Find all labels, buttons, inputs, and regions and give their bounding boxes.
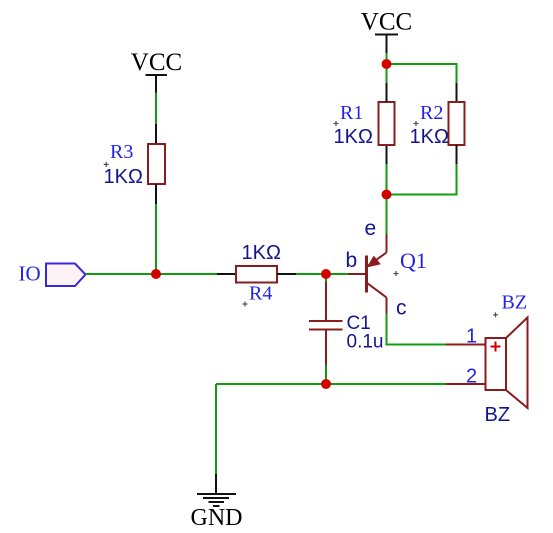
wire VCC to R3 [155, 93, 157, 126]
svg-text:R3: R3 [110, 141, 133, 163]
wire VCC pin to node D [386, 53, 388, 64]
wire node A to R4 [156, 273, 217, 275]
resistor R1 [379, 83, 395, 164]
resistor R3 [148, 124, 165, 204]
svg-text:IO: IO [19, 262, 41, 286]
resistor R2 [449, 83, 465, 164]
wire node C to R1 [386, 164, 388, 194]
capacitor C1 [309, 282, 343, 366]
svg-text:1: 1 [466, 326, 477, 348]
svg-text:R4: R4 [249, 283, 272, 305]
junction node C [382, 190, 392, 200]
svg-text:R1: R1 [340, 102, 363, 124]
wire R1 to node D [386, 64, 388, 83]
svg-text:2: 2 [466, 366, 477, 388]
buzzer BZ [446, 318, 528, 409]
wire ground rail [216, 383, 446, 385]
svg-text:VCC: VCC [131, 49, 182, 76]
wire node B to capacitor [325, 274, 327, 282]
svg-text:1KΩ: 1KΩ [242, 242, 281, 264]
wire R4 to node B [296, 273, 326, 275]
svg-text:c: c [396, 297, 407, 320]
junction node E [321, 379, 331, 389]
power symbol VCC (right) [361, 9, 412, 54]
svg-text:GND: GND [191, 505, 243, 531]
wire R3 to node [155, 204, 157, 274]
R4 origin marker [243, 302, 248, 307]
transistor Q1 [348, 234, 387, 314]
wire node D to R2 top [387, 64, 457, 83]
wire Q1 collector to buzzer pin 1 [387, 314, 447, 345]
wire R2 bottom to node C [387, 164, 457, 195]
Q1 origin marker [394, 271, 399, 276]
svg-text:R2: R2 [420, 102, 443, 124]
svg-text:e: e [365, 217, 377, 240]
svg-text:b: b [346, 249, 358, 272]
junction node A [151, 269, 161, 279]
wire rail to ground [215, 384, 217, 474]
resistor R4 [217, 266, 296, 283]
BZ origin marker [493, 312, 498, 317]
port IO [46, 264, 86, 287]
BZ plus mark [491, 342, 501, 352]
svg-text:Q1: Q1 [400, 248, 427, 273]
svg-text:BZ: BZ [502, 292, 528, 314]
wire capacitor to node E [325, 365, 327, 384]
svg-text:1KΩ: 1KΩ [104, 166, 143, 188]
wire node B to Q1 base [326, 273, 348, 275]
power symbol VCC (left) [131, 49, 182, 93]
svg-text:1KΩ: 1KΩ [334, 126, 373, 148]
wire IO to node A [86, 273, 157, 275]
R1 origin marker [334, 121, 339, 126]
svg-text:1KΩ: 1KΩ [410, 126, 449, 148]
junction node B [321, 269, 331, 279]
R2 origin marker [414, 121, 419, 126]
R3 origin marker [104, 162, 109, 167]
ground symbol GND [197, 474, 236, 506]
svg-text:BZ: BZ [485, 404, 511, 426]
wire Q1 emitter to node C [386, 194, 388, 234]
svg-text:0.1u: 0.1u [347, 332, 384, 353]
junction node D [382, 59, 392, 69]
svg-text:VCC: VCC [361, 9, 412, 36]
